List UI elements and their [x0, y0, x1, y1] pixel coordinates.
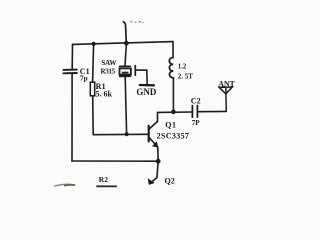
svg-text:R315: R315 [101, 67, 116, 75]
svg-text:C2: C2 [191, 96, 201, 105]
wire SAW case to ground [136, 70, 147, 84]
node rail-SAW junction [124, 41, 129, 46]
svg-text:ANT: ANT [218, 79, 235, 88]
antenna ANT [219, 87, 232, 111]
resistor R1 [90, 82, 94, 96]
transistor Q2 emitter stub [148, 161, 158, 184]
node collector-inductor-C2 junction [171, 110, 176, 115]
svg-text:7P: 7P [192, 119, 201, 127]
capacitor C2 [192, 106, 197, 118]
svg-text:5. 6k: 5. 6k [96, 90, 113, 99]
svg-text:Q2: Q2 [165, 176, 175, 185]
svg-text:7p: 7p [80, 74, 88, 83]
inductor L1 1.2uH 2.5T [169, 58, 173, 78]
wire R1 branch lower [92, 96, 95, 135]
svg-text:1.2: 1.2 [178, 63, 187, 70]
SAW resonator R315 [120, 66, 136, 77]
svg-text:SAW: SAW [101, 59, 116, 67]
transistor Q1 2SC3357 [149, 122, 158, 148]
label R2 underline [96, 185, 117, 187]
wire inductor branch upper [172, 42, 174, 58]
wire C1 branch lower [71, 74, 73, 161]
wire V+ lead with hook [123, 22, 126, 44]
wire collector to C2 [158, 112, 193, 121]
faint bottom-left smudge [54, 184, 75, 186]
node rail-R1 junction [92, 42, 96, 46]
svg-text:2. 5T: 2. 5T [178, 72, 194, 80]
wire bottom feedback run [72, 160, 158, 162]
node emitter-feedback junction [156, 159, 161, 164]
wire base run [93, 133, 148, 135]
svg-text:GND: GND [136, 87, 157, 97]
wire R1 branch upper [93, 44, 94, 82]
ground GND [140, 84, 154, 87]
wire top supply rail [73, 42, 174, 45]
svg-text:2SC3357: 2SC3357 [157, 131, 190, 140]
wire inductor branch lower [172, 78, 174, 112]
capacitor C1 [63, 70, 76, 74]
svg-text:Q1: Q1 [165, 121, 176, 130]
node base-SAW junction [125, 132, 129, 136]
wire SAW branch upper [125, 43, 126, 66]
wire C2 to antenna [198, 110, 226, 112]
faint V+ annotation [130, 21, 143, 23]
wire C1 branch upper [71, 44, 73, 69]
svg-text:R2: R2 [99, 175, 108, 184]
wire Q1 emitter lead [157, 147, 160, 161]
wire SAW branch lower [125, 77, 126, 134]
